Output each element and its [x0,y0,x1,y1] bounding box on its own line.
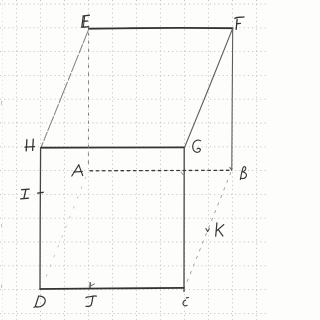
scan left edge faint specks [1,101,3,288]
label K [216,223,224,236]
label F [235,17,244,29]
wire edge FB (right vertical, solid) [231,29,234,171]
label G [193,140,201,152]
node B hook at end of FB [230,167,232,170]
wire edge DC (bottom, solid) [40,288,184,289]
wire edge AB (hidden, dashed) [90,169,231,172]
wire edge HG (solid) [41,146,184,148]
wire edge HD (left vertical, solid) [39,148,42,289]
wire edge FG (solid diagonal) [185,29,233,147]
node J tick on DC [89,283,91,289]
label B [240,167,246,180]
label C [183,298,189,306]
label H [25,139,35,151]
node I tick on HD [38,191,44,194]
label D [34,296,46,308]
node K tick on BC [206,229,209,232]
label E [82,15,90,27]
label J [86,296,97,306]
label A [72,165,83,176]
wire edge AD (hidden, faint dashed) [44,177,86,282]
wire edge BC (hidden, dashed through K) [185,173,231,287]
label I [21,189,30,199]
tick below G on GC [181,172,184,176]
wire edge EH (solid diagonal) [41,29,89,147]
wire edge EA (hidden, dashed vertical) [87,33,89,168]
wire edge EF (top, solid) [89,27,233,30]
wire edge GC (vertical, solid) [183,148,185,292]
